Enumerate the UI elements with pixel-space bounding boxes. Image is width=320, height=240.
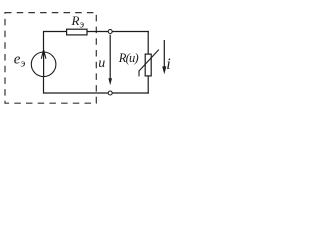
svg-text:R(u): R(u) — [118, 51, 139, 65]
wire: bottom left segment (corner to terminal b) — [43, 92, 108, 94]
nonlinear resistor R(u) (box) — [145, 54, 151, 76]
svg-text:Rэ: Rэ — [71, 13, 85, 31]
EMF source eЭ (circle) — [31, 52, 56, 77]
wire: RЭ right lead to terminal a — [87, 31, 108, 33]
terminal b (bottom, open circle) — [108, 91, 112, 95]
svg-text:i: i — [166, 56, 170, 73]
wire: right branch upper (down to R(u) top) — [147, 31, 149, 54]
nonlinear resistor foot tick — [138, 71, 140, 77]
EMF arrow shaft — [43, 52, 45, 77]
wire: terminal b to bottom-right corner — [112, 92, 149, 94]
EMF arrowhead (upward) — [41, 50, 46, 59]
wire: left branch upper (source top to top-left corner) — [43, 32, 45, 53]
wire: top left segment (corner to RЭ left lead) — [43, 31, 67, 33]
nonlinear resistor diagonal stroke — [139, 50, 159, 71]
svg-text:u: u — [98, 56, 105, 71]
wire: left branch lower (source bottom to bottom-left corner) — [43, 76, 45, 93]
wire: terminal a to top-right corner — [112, 31, 149, 33]
terminal a (top, open circle) — [108, 30, 112, 34]
wire: right branch lower (R(u) bottom to corner) — [147, 76, 149, 94]
svg-text:eэ: eэ — [14, 51, 26, 69]
equivalent-source boundary (dashed box) — [5, 13, 96, 104]
voltage arrow u (between terminals, pointing down) — [109, 35, 111, 79]
current arrow i (pointing down) — [163, 40, 165, 67]
resistor RЭ — [67, 29, 87, 35]
